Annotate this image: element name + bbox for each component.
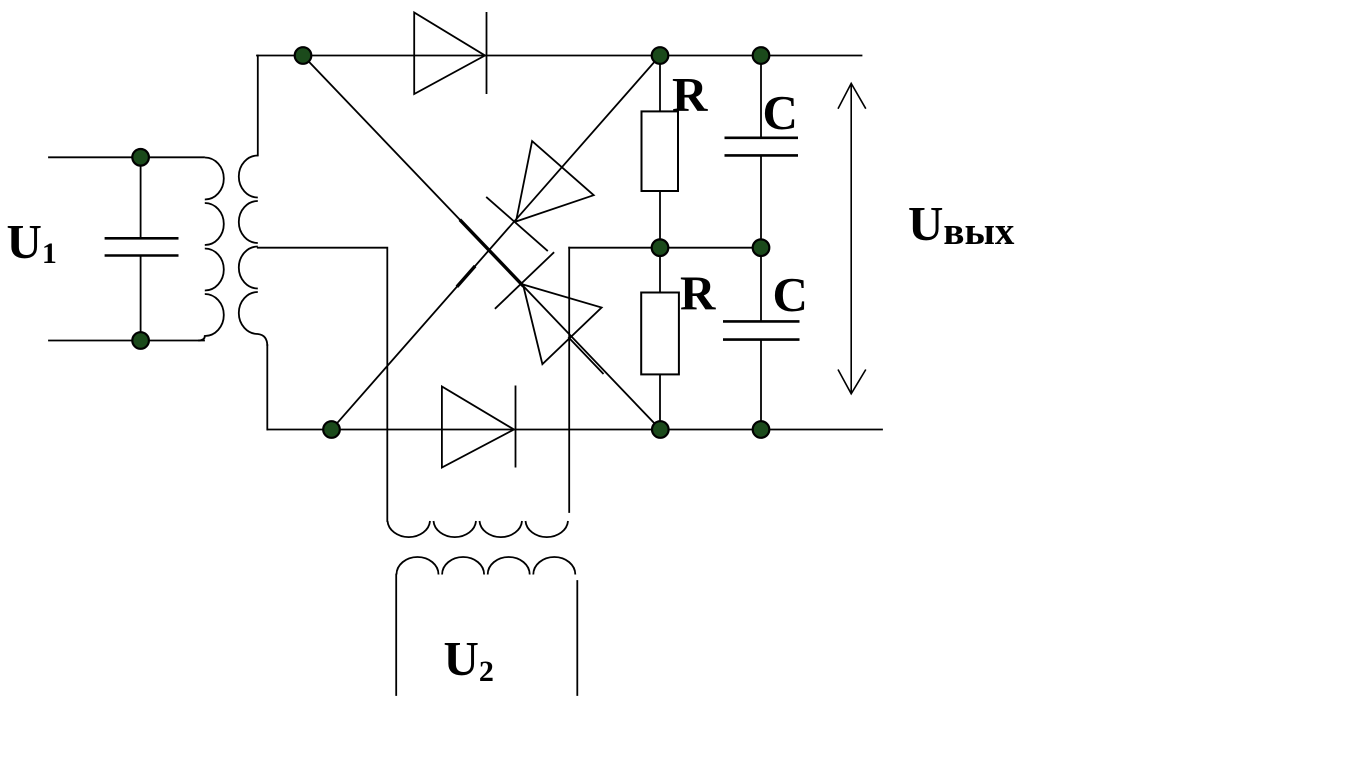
diode VD1 (top) triangle: [414, 13, 485, 95]
wire R2 to node D: [659, 374, 661, 429]
svg-text:R: R: [680, 266, 716, 321]
svg-text:R: R: [672, 67, 708, 122]
capacitor C0 (across U1): [105, 238, 179, 255]
node top-right C1: [753, 47, 770, 64]
diode VD3 cathode bar: [486, 197, 548, 251]
node A (bridge top-left): [295, 47, 312, 64]
wire U1 top lead: [49, 156, 204, 158]
arrow Uvych measurement: [838, 83, 866, 393]
wire C2 to bottom node: [760, 340, 762, 430]
wire center tap to lower winding left: [258, 248, 388, 521]
wire U1 capacitor top: [140, 157, 142, 238]
wire from node A down to secondary winding top: [257, 56, 259, 156]
node D (bridge bottom-right): [652, 421, 669, 438]
wire secondary winding bottom lead: [266, 345, 268, 430]
node C (bridge bottom-left): [323, 421, 340, 438]
diode VD2 (bottom) triangle: [442, 387, 514, 468]
wire diagonal B to C: [332, 56, 661, 430]
resistor R2: [641, 293, 679, 375]
capacitor C1: [725, 138, 799, 156]
wire mid node to R2: [659, 248, 661, 293]
wire bottom bus: [268, 429, 883, 431]
transformer T2 secondary winding U2 (bulge up): [397, 557, 576, 575]
wire thick overlap on diagonal B to C: [458, 267, 474, 285]
diode VD4 cathode bar: [495, 252, 554, 309]
wire U1 capacitor bottom: [140, 256, 142, 341]
svg-text:C: C: [773, 267, 808, 322]
diode VD2 cathode bar: [515, 386, 517, 468]
node U1 bottom: [132, 332, 149, 349]
wire thick overlap on diagonal A to D: [461, 221, 523, 285]
svg-text:C: C: [763, 85, 798, 140]
node B (bridge top-right): [652, 47, 669, 64]
node mid R: [652, 239, 669, 256]
node bottom-right C2: [753, 421, 770, 438]
diode VD4 (lower middle, on A-D diagonal) triangle: [523, 285, 602, 365]
wire mid node to C2: [760, 248, 762, 322]
wire R1 to mid node: [659, 191, 661, 248]
inductor L1 winding (top, bulge down): [388, 521, 569, 537]
wire U2 winding right terminal: [576, 581, 578, 695]
wire top bus: [257, 55, 862, 57]
wire C1 to mid node: [760, 155, 762, 247]
wire diagonal A to D: [303, 56, 660, 430]
wire U2 winding left terminal: [395, 575, 397, 696]
wire stray double segment near diagonal: [569, 338, 603, 374]
node mid C: [753, 239, 770, 256]
capacitor C2: [723, 321, 800, 339]
wire U1 bottom lead: [49, 340, 204, 342]
diode VD1 cathode bar: [486, 12, 488, 94]
diode VD3 (upper middle, on B-C diagonal) triangle: [516, 141, 594, 221]
transformer T1 secondary winding: [239, 156, 268, 347]
resistor R1: [642, 111, 679, 191]
wire node B to R1: [659, 56, 661, 112]
transformer T1 primary winding: [198, 158, 224, 341]
node U1 top: [132, 149, 149, 166]
wire top node to C1: [760, 56, 762, 138]
wire mid bus right: [569, 247, 761, 249]
wire lower winding right terminal up: [568, 248, 570, 512]
